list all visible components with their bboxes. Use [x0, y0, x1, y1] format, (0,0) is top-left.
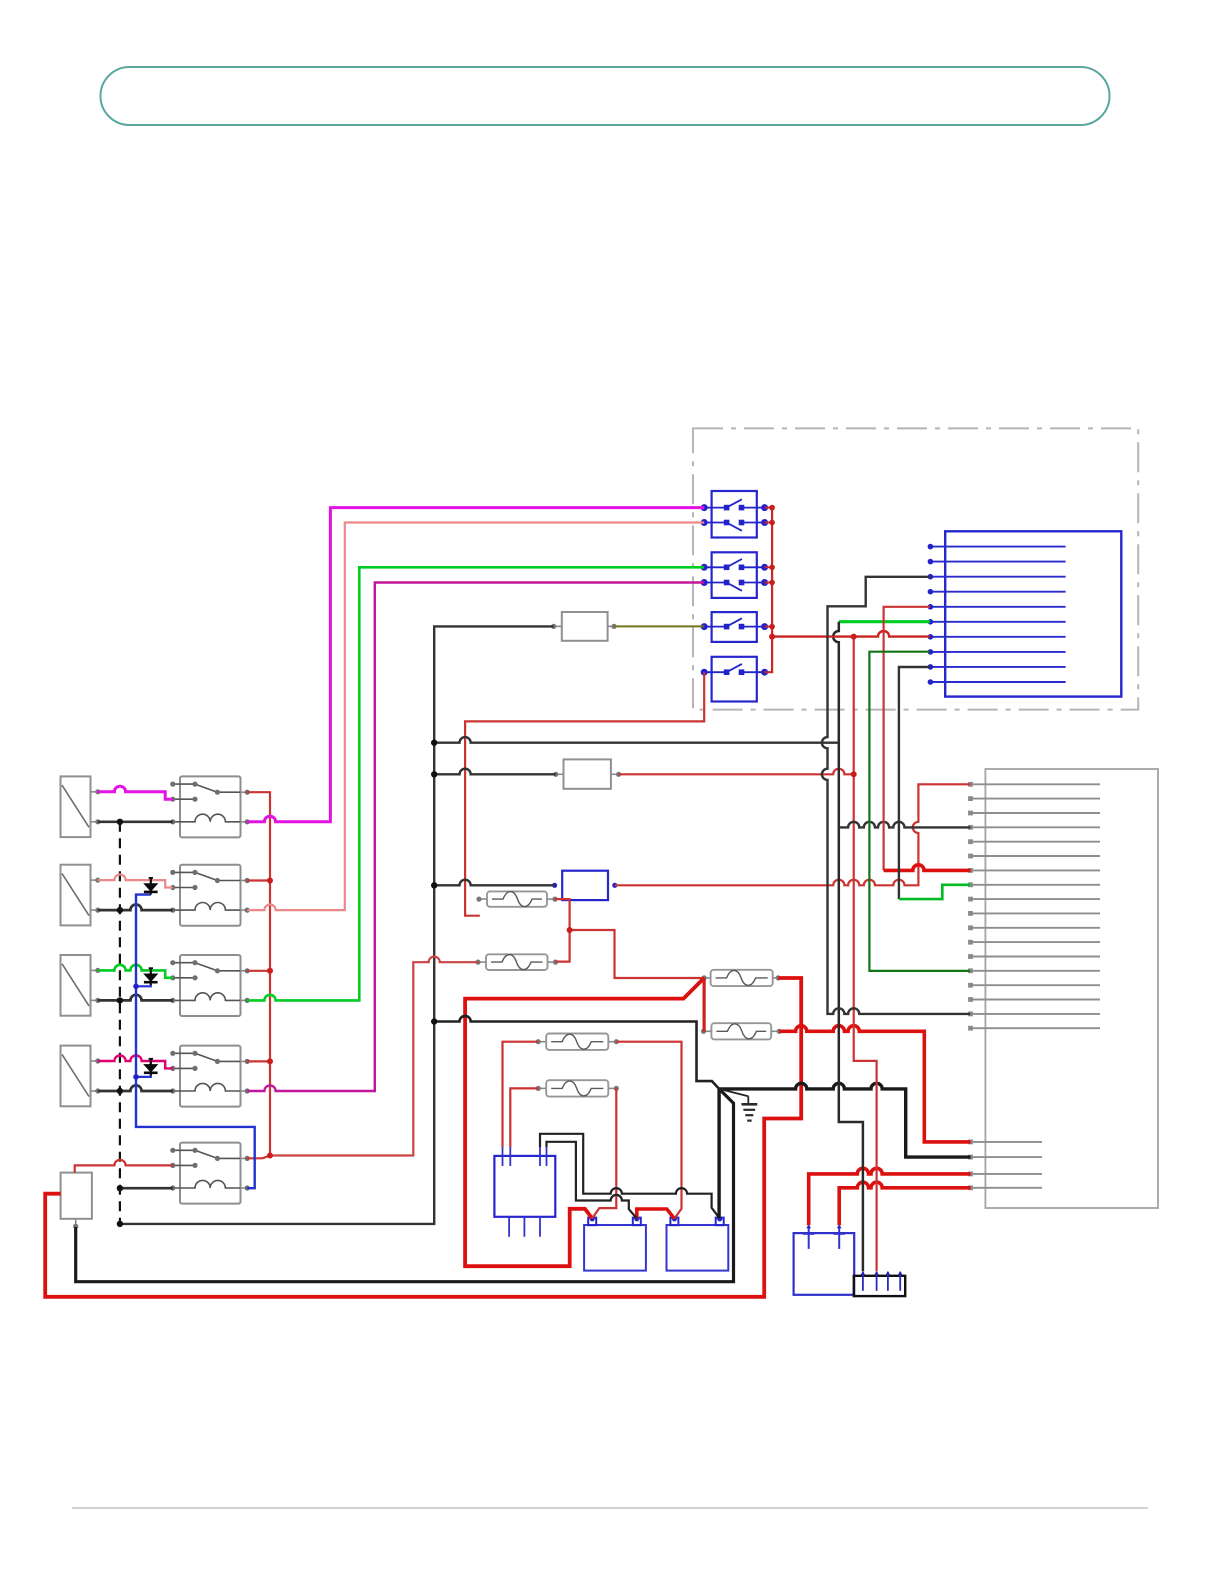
fuse F1: [476, 891, 557, 906]
wire green SW3->K3: [98, 965, 173, 978]
wire red K5 out: [247, 1156, 270, 1159]
wire black SW1 low: [98, 820, 173, 823]
relay K5: [170, 1143, 250, 1204]
ground symbol: [742, 1096, 758, 1120]
wire red F5->BT2-: [616, 1042, 681, 1219]
wire salmon SW2->K2: [98, 875, 173, 888]
wire thick red BT1->BT2 link: [637, 1209, 675, 1219]
wire blue D3 tap: [136, 1075, 151, 1077]
wire black K5 coil: [120, 1187, 173, 1190]
wire dk-magenta K4 coil->S2: [247, 583, 704, 1092]
wire red F5->U2 pin1: [503, 1042, 539, 1147]
wire red F3->F4 link: [702, 978, 705, 1031]
battery BT1: [584, 1216, 646, 1270]
wire thick black fan->J2 low2: [719, 1083, 970, 1157]
sender box B1 (bottom left): [61, 1173, 92, 1229]
dashed net line (common): [119, 822, 121, 1224]
wire red F6->BT1+: [592, 1088, 616, 1218]
wire red S4 feed: [465, 672, 704, 916]
wire dk-green J1.8->J2.14: [869, 652, 970, 971]
footer rule: [72, 1507, 1148, 1509]
wire magenta K1 coil->S1: [247, 508, 704, 822]
relay K3: [170, 955, 250, 1016]
fuse F6: [536, 1080, 619, 1096]
wire black trunk->M2: [434, 769, 556, 775]
fuse F3: [702, 970, 781, 986]
wire thick red U3b->J2 low4: [839, 1182, 970, 1225]
wire black trunk M1/dashed: [120, 626, 554, 1224]
wire black U2->BT1-: [547, 1142, 637, 1219]
node: bus taps: [769, 505, 775, 640]
module M1 (small gray box, top middle): [551, 612, 617, 641]
control unit U2 (blue box above batteries): [494, 1147, 555, 1237]
sensor SW4: [61, 1046, 101, 1107]
sensor SW2: [61, 865, 101, 926]
wire red bus->F2: [270, 957, 478, 1156]
relay K1: [170, 776, 250, 837]
fuse F4: [701, 1023, 782, 1039]
wire black fan->ground: [719, 1089, 748, 1096]
fuse F2: [475, 954, 558, 970]
wire green J1.6: [839, 620, 930, 623]
wire red F6->U2 pin2: [510, 1088, 538, 1147]
wire red K4 out: [247, 1060, 270, 1062]
wire black SW3 low: [98, 995, 173, 1001]
red bus of switch block: [765, 508, 773, 673]
wire red F1 net: [554, 899, 569, 962]
wire red J1.5 drop: [884, 607, 930, 871]
relay K4: [170, 1046, 250, 1107]
wire black J1.3->J2.17: [822, 577, 970, 1014]
battery BT2: [667, 1216, 729, 1270]
sensor SW1: [61, 776, 101, 837]
wire black n839->J3 pin1: [833, 622, 863, 1271]
wire thick red F3-loop-BT1+: [465, 978, 704, 1266]
wire red M2->n853: [619, 769, 854, 775]
connector J1 (blue, 10 pins): [928, 531, 1122, 696]
wire salmon K2 coil->S1: [247, 523, 704, 911]
wire red n853->J3 pin2: [854, 637, 877, 1272]
switch S4: [702, 657, 768, 702]
wire thick red F4->J2 low1: [779, 1026, 970, 1142]
wire red U1->J2 pin1: [615, 784, 971, 885]
module U1 (blue box, middle): [552, 871, 617, 900]
wire black trunk->fan: [434, 1016, 719, 1089]
module M2 (small gray box, middle): [553, 759, 621, 788]
title banner rounded box: [101, 67, 1110, 125]
wire thick red ->J2.7: [884, 865, 971, 871]
connector J3 (bottom, 4-pin): [854, 1271, 905, 1296]
wire crimson SW4->K4: [98, 1055, 173, 1068]
wire black J1.9 drop: [899, 667, 930, 899]
wire black SW2 low: [98, 904, 173, 910]
sensor SW3: [61, 955, 101, 1016]
fuse F5: [536, 1034, 619, 1050]
switch S3: [702, 612, 768, 642]
wire red F1->F3: [570, 930, 705, 978]
wire green ->J2.8: [899, 885, 970, 899]
wire red K3 out: [247, 970, 270, 972]
wire thick red U3a->J2 low3: [809, 1168, 971, 1225]
switch S2: [702, 552, 768, 598]
wire black trunk->n839: [434, 737, 839, 743]
wire thick black fan->B1: [76, 1089, 734, 1282]
wire green K3 coil->S2: [247, 567, 704, 1000]
diode D3: [144, 1059, 158, 1076]
module U3 (blue box, bottom right): [794, 1225, 855, 1295]
switch S1: [702, 491, 768, 538]
wire thick red F3->B1 bottom loop: [45, 978, 801, 1297]
wire magenta SW1->K1: [98, 786, 173, 799]
relay K2: [170, 865, 250, 926]
wire black trunk->U1: [434, 880, 554, 886]
wire red K2 out: [247, 879, 270, 881]
wire red bus->J1.7: [772, 631, 930, 637]
diode D2: [144, 968, 158, 985]
junction nodes: [267, 634, 857, 1159]
dash-dot enclosure (component boundary): [693, 428, 1138, 709]
wire blue diode bus->K5: [136, 895, 255, 1189]
wire red relay bus: [247, 792, 270, 1155]
wire black U2->BT2-: [540, 1134, 720, 1219]
wire black J2.4->n839: [839, 822, 971, 828]
wire red B1->K5: [75, 1160, 173, 1173]
connector J2 (right, 18+4 pins): [968, 769, 1158, 1208]
wire thick black fan->BT2+: [717, 1089, 720, 1218]
wire blue D2 tap: [136, 984, 151, 986]
wire: switch outputs to red bus: [765, 508, 773, 627]
diode D1: [144, 878, 158, 895]
wire black SW4 low: [98, 1085, 173, 1091]
wire olive M1->S3: [614, 625, 704, 627]
